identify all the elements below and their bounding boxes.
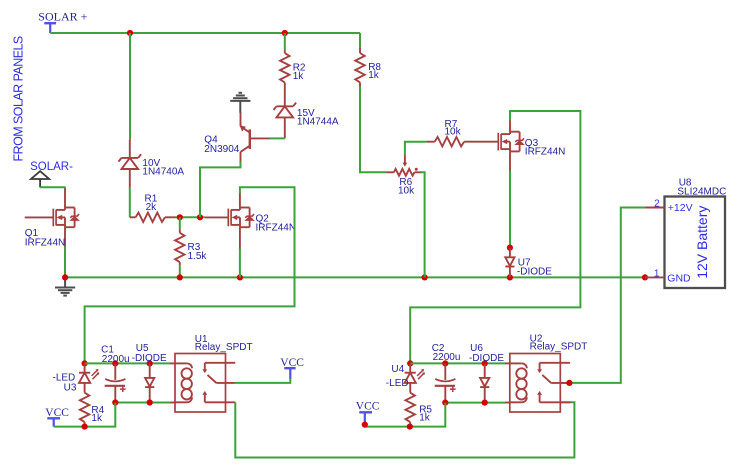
svg-text:10k: 10k bbox=[398, 185, 415, 196]
resistor R3 1.5k bbox=[175, 217, 184, 277]
transistor Q3 IRFZ44N bbox=[498, 120, 524, 172]
svg-text:10k: 10k bbox=[445, 126, 462, 137]
label Q2 IRFZ44N bbox=[256, 214, 297, 234]
relay U2 Relay_SPDT bbox=[510, 354, 570, 413]
svg-text:U4: U4 bbox=[391, 364, 404, 375]
stub coil U1 top bbox=[171, 362, 176, 364]
junction C1 top bbox=[112, 360, 118, 366]
wire VCC left row bbox=[54, 403, 116, 427]
label R2 1k bbox=[293, 63, 306, 82]
junction C2 bottom bbox=[442, 400, 448, 406]
diode U6 -DIODE bbox=[480, 363, 489, 402]
diode U7 -DIODE bbox=[505, 248, 514, 278]
label C1 2200u bbox=[101, 345, 130, 365]
diode U5 -DIODE bbox=[145, 363, 154, 402]
zener diode 15V 1N4744A bbox=[274, 103, 297, 139]
resistor R8 1k bbox=[355, 33, 364, 87]
junction U7 anode bbox=[507, 245, 513, 251]
svg-text:2200u: 2200u bbox=[102, 354, 130, 365]
wire SOLAR+ to D 10V bbox=[129, 33, 131, 140]
zener diode 10V 1N4740A bbox=[119, 140, 142, 188]
junction rail Q2 bbox=[237, 274, 243, 280]
svg-text:GND: GND bbox=[667, 272, 691, 284]
svg-text:12V Battery: 12V Battery bbox=[694, 206, 710, 279]
junction R5 bottom bbox=[407, 424, 413, 430]
supply symbol VCC right bbox=[359, 412, 372, 424]
net label VCC left bbox=[45, 407, 69, 419]
label C2 2200u bbox=[432, 343, 461, 363]
junction LED U4 top bbox=[407, 360, 413, 366]
battery U8 SLI24MDC bbox=[645, 197, 725, 289]
svg-text:1: 1 bbox=[654, 269, 660, 280]
label Q4 2N3904 bbox=[204, 135, 239, 155]
wire VCC right row bbox=[365, 403, 446, 427]
resistor R1 2k bbox=[130, 213, 176, 222]
svg-text:IRFZ44N: IRFZ44N bbox=[25, 237, 66, 248]
wire R6 wiper to R7 bbox=[405, 142, 426, 156]
pin 2 +12V bbox=[654, 198, 693, 214]
junction rail U7 bbox=[507, 274, 513, 280]
svg-text:+12V: +12V bbox=[668, 202, 693, 214]
stub coil U2 top bbox=[505, 362, 510, 364]
label R3 1.5k bbox=[188, 242, 208, 262]
svg-text:-DIODE: -DIODE bbox=[517, 266, 552, 277]
svg-text:IRFZ44N: IRFZ44N bbox=[525, 147, 566, 158]
transistor Q2 IRFZ44N bbox=[205, 193, 254, 250]
svg-text:VCC: VCC bbox=[356, 401, 380, 413]
led U3 -LED bbox=[79, 363, 99, 392]
net label VCC right bbox=[356, 401, 380, 413]
stub relay2 NO pin bbox=[560, 401, 570, 403]
resistor R4 1k bbox=[80, 393, 89, 427]
wire Q2 source to rail bbox=[239, 249, 241, 278]
svg-text:1N4744A: 1N4744A bbox=[297, 117, 339, 128]
net label SOLAR + (supply) bbox=[38, 9, 87, 33]
junction R4 bottom bbox=[82, 424, 88, 430]
wire relay2 bottom row bbox=[445, 402, 510, 404]
junction rail R6 bbox=[422, 274, 428, 280]
label U3 -LED bbox=[53, 372, 77, 393]
label U5 -DIODE bbox=[132, 343, 167, 364]
svg-text:IRFZ44N: IRFZ44N bbox=[256, 223, 297, 234]
wire SOLAR- to Q1 drain bbox=[40, 186, 65, 188]
label R6 10k bbox=[398, 177, 415, 197]
svg-text:Relay_SPDT: Relay_SPDT bbox=[195, 342, 253, 353]
svg-text:1k: 1k bbox=[368, 70, 380, 81]
capacitor C1 2200u bbox=[105, 363, 126, 402]
label Q3 IRFZ44N bbox=[525, 138, 566, 157]
junction VCC right bbox=[362, 422, 368, 428]
potentiometer R6 10k bbox=[386, 155, 421, 175]
wire Q2 drain to relay 1 feed bbox=[85, 187, 295, 363]
junction rail R3 bbox=[177, 274, 183, 280]
svg-text:-LED: -LED bbox=[386, 378, 409, 389]
junction U5 bottom bbox=[147, 399, 153, 405]
label U8 SLI24MDC bbox=[677, 177, 726, 197]
label R1 2k bbox=[145, 193, 158, 213]
junction C1 bottom bbox=[112, 399, 118, 405]
supply symbol VCC left bbox=[47, 418, 60, 426]
svg-text:1.5k: 1.5k bbox=[188, 251, 208, 262]
wire Q3 drain to relay 2 feed bbox=[410, 111, 580, 363]
junction top rail B bbox=[282, 30, 288, 36]
svg-text:2N3904: 2N3904 bbox=[204, 144, 239, 155]
junction U6 top bbox=[482, 360, 488, 366]
junction R1-R3 node bbox=[177, 214, 183, 220]
junction U5 top bbox=[147, 360, 153, 366]
svg-text:2: 2 bbox=[654, 198, 660, 209]
junction gate node bbox=[197, 214, 203, 220]
ground above Q4 bbox=[230, 93, 250, 113]
wire Q3 source to U7 bbox=[509, 171, 511, 248]
transistor Q4 2N3904 bbox=[240, 112, 270, 162]
label U2 Relay_SPDT bbox=[530, 333, 588, 352]
svg-text:1k: 1k bbox=[91, 413, 103, 424]
label U6 -DIODE bbox=[469, 343, 504, 364]
capacitor C2 2200u bbox=[435, 363, 456, 402]
wire relay1 NO to relay2 NO bbox=[235, 402, 574, 457]
label R4 1k bbox=[91, 405, 104, 424]
stub relay2 common pin bbox=[560, 382, 565, 384]
net label VCC mid bbox=[280, 357, 304, 369]
svg-text:U3: U3 bbox=[64, 383, 77, 394]
wire Q1 source to rail bbox=[64, 247, 66, 278]
label Q1 IRFZ44N bbox=[25, 228, 66, 248]
supply symbol VCC mid bbox=[284, 368, 295, 379]
label U1 Relay_SPDT bbox=[195, 334, 253, 353]
pin 1 GND bbox=[654, 269, 691, 285]
wire R6 to rail bbox=[421, 172, 425, 277]
resistor R2 1k bbox=[280, 33, 289, 106]
wire ground rail bbox=[65, 276, 645, 278]
svg-text:SOLAR-: SOLAR- bbox=[30, 161, 73, 173]
label 15V 1N4744A bbox=[297, 108, 339, 128]
svg-text:1N4740A: 1N4740A bbox=[142, 167, 184, 178]
svg-text:-DIODE: -DIODE bbox=[132, 353, 167, 364]
junction relay2 common bbox=[566, 380, 572, 386]
svg-text:-DIODE: -DIODE bbox=[469, 353, 504, 364]
svg-text:Relay_SPDT: Relay_SPDT bbox=[530, 341, 588, 352]
wire Q4 collector to node bbox=[200, 162, 241, 218]
wire top rail SOLAR+ bbox=[50, 32, 360, 34]
wire D10V to R1 bbox=[129, 187, 131, 217]
junction LED U3 top bbox=[82, 360, 88, 366]
wire relay1 common to VCC bbox=[234, 378, 290, 383]
label R8 1k bbox=[368, 62, 381, 81]
label U4 -LED bbox=[386, 364, 409, 389]
junction rail Q1 bbox=[62, 274, 68, 280]
supply symbol SOLAR- arrow bbox=[31, 171, 49, 187]
junction U6 bottom bbox=[482, 400, 488, 406]
label R5 1k bbox=[419, 404, 432, 423]
text 12V Battery bbox=[694, 206, 710, 279]
wire relay1 top row bbox=[85, 362, 171, 364]
svg-text:1k: 1k bbox=[293, 71, 305, 82]
wire +12V to relay 2 common bbox=[565, 208, 646, 383]
wire R1 to node bbox=[176, 216, 205, 218]
led U4 -LED bbox=[405, 363, 425, 392]
junction top rail A bbox=[127, 30, 133, 36]
wire Q4 base to D15V bbox=[269, 137, 285, 139]
wire relay2 top row bbox=[410, 362, 506, 364]
label R7 10k bbox=[445, 119, 462, 137]
relay U1 Relay_SPDT bbox=[175, 354, 235, 413]
junction C2 top bbox=[442, 360, 448, 366]
svg-text:SLI24MDC: SLI24MDC bbox=[677, 187, 726, 198]
wire relay1 bottom row bbox=[115, 402, 175, 404]
resistor R5 1k bbox=[406, 393, 415, 427]
svg-text:1k: 1k bbox=[419, 412, 431, 423]
transistor Q1 IRFZ44N bbox=[25, 187, 79, 247]
label U7 -DIODE bbox=[517, 258, 552, 278]
svg-text:2k: 2k bbox=[146, 202, 158, 213]
ground below Q1 bbox=[55, 277, 75, 295]
resistor R7 10k bbox=[426, 137, 498, 146]
svg-text:FROM SOLAR PANELS: FROM SOLAR PANELS bbox=[12, 36, 26, 161]
junction rail GND pin bbox=[642, 274, 648, 280]
net label SOLAR- bbox=[30, 161, 73, 173]
text FROM SOLAR PANELS bbox=[12, 36, 26, 161]
label 10V 1N4740A bbox=[142, 158, 184, 178]
wire R8 to R6 bbox=[360, 87, 386, 173]
svg-text:2200u: 2200u bbox=[433, 352, 461, 363]
svg-text:SOLAR +: SOLAR + bbox=[38, 9, 87, 23]
